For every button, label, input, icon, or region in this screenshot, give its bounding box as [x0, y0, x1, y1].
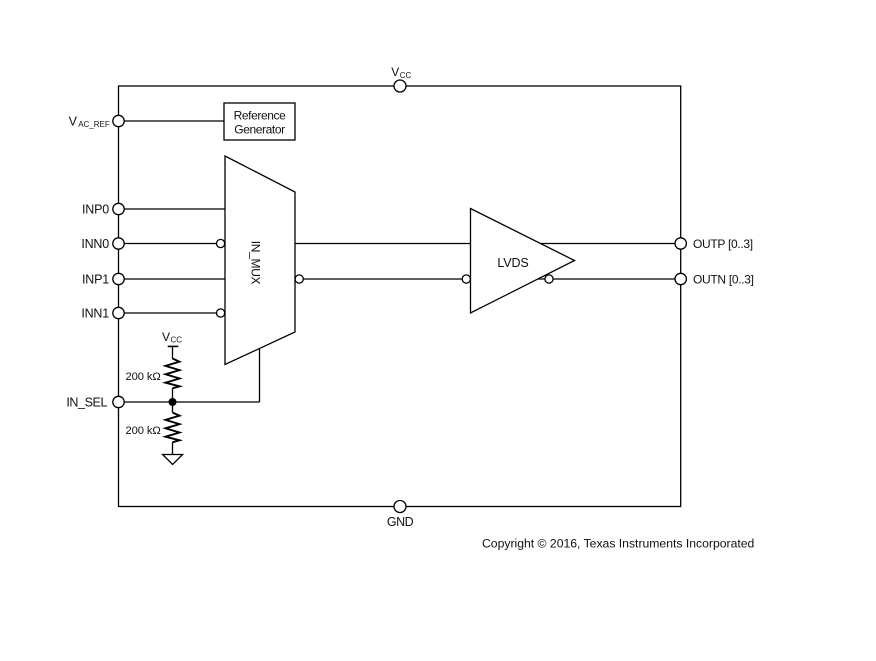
ground	[163, 455, 183, 465]
LVDS output bubble	[545, 275, 553, 283]
pin OUTP	[675, 237, 753, 251]
svg-text:CC: CC	[171, 336, 183, 345]
svg-text:Generator: Generator	[234, 123, 285, 137]
LVDS input bubble	[462, 275, 470, 283]
wire LVDS output bottom to OUTN	[538, 278, 676, 280]
wire INP0 to mux	[124, 208, 225, 210]
mux IN_MUX	[225, 156, 295, 365]
svg-text:Reference: Reference	[234, 109, 286, 123]
svg-text:GND: GND	[387, 515, 414, 529]
mux input bubble INN1	[217, 309, 225, 317]
pin IN_SEL	[66, 395, 124, 409]
svg-text:V: V	[69, 115, 78, 129]
pin INP0	[82, 202, 124, 216]
wire mux output bottom to LVDS bubble	[303, 278, 462, 280]
svg-text:INN0: INN0	[81, 237, 109, 251]
svg-text:V: V	[162, 330, 170, 344]
pin INN0	[81, 237, 124, 251]
resistor R1 200k (upper)	[126, 359, 180, 389]
svg-text:IN_SEL: IN_SEL	[66, 395, 107, 409]
svg-text:IN_MUX: IN_MUX	[248, 241, 262, 285]
wire R1 to node to R2	[172, 388, 174, 412]
pin OUTN	[675, 273, 754, 287]
node junction dot	[169, 398, 177, 406]
svg-text:AC_REF: AC_REF	[78, 120, 110, 129]
svg-text:LVDS: LVDS	[497, 256, 528, 270]
wire INP1 to mux	[124, 278, 225, 280]
wire IN_SEL to node	[124, 401, 260, 403]
Reference Generator block	[224, 103, 295, 140]
wire INN0 to mux bubble	[124, 243, 217, 245]
wire mux output top to LVDS	[295, 243, 471, 245]
svg-text:INP0: INP0	[82, 202, 109, 216]
pin VAC_REF	[69, 115, 125, 130]
svg-text:INP1: INP1	[82, 272, 109, 286]
wire LVDS output top to OUTP	[541, 243, 676, 245]
outer block boundary	[119, 86, 681, 507]
svg-text:V: V	[391, 65, 399, 79]
pin INN1	[81, 306, 124, 320]
VCC supply for divider	[162, 330, 182, 359]
pin INP1	[82, 272, 124, 286]
wire INN1 to mux bubble	[124, 312, 217, 314]
wire VAC_REF to Reference Generator	[124, 120, 224, 122]
wire node up to mux select	[259, 349, 261, 403]
svg-text:CC: CC	[400, 71, 412, 80]
resistor R2 200k (lower)	[126, 413, 180, 443]
svg-text:INN1: INN1	[81, 306, 109, 320]
op-amp LVDS	[471, 209, 575, 314]
pin VCC (top)	[391, 65, 411, 92]
mux input bubble INN0	[217, 239, 225, 247]
svg-text:OUTP [0..3]: OUTP [0..3]	[693, 237, 753, 251]
wire R2 to ground	[172, 442, 174, 454]
svg-text:OUTN [0..3]: OUTN [0..3]	[693, 273, 754, 287]
mux output bubble	[295, 275, 303, 283]
pin GND (bottom)	[387, 501, 414, 530]
svg-text:200 kΩ: 200 kΩ	[126, 371, 161, 383]
svg-text:200 kΩ: 200 kΩ	[126, 425, 161, 437]
svg-text:Copyright © 2016, Texas Instru: Copyright © 2016, Texas Instruments Inco…	[482, 537, 754, 551]
